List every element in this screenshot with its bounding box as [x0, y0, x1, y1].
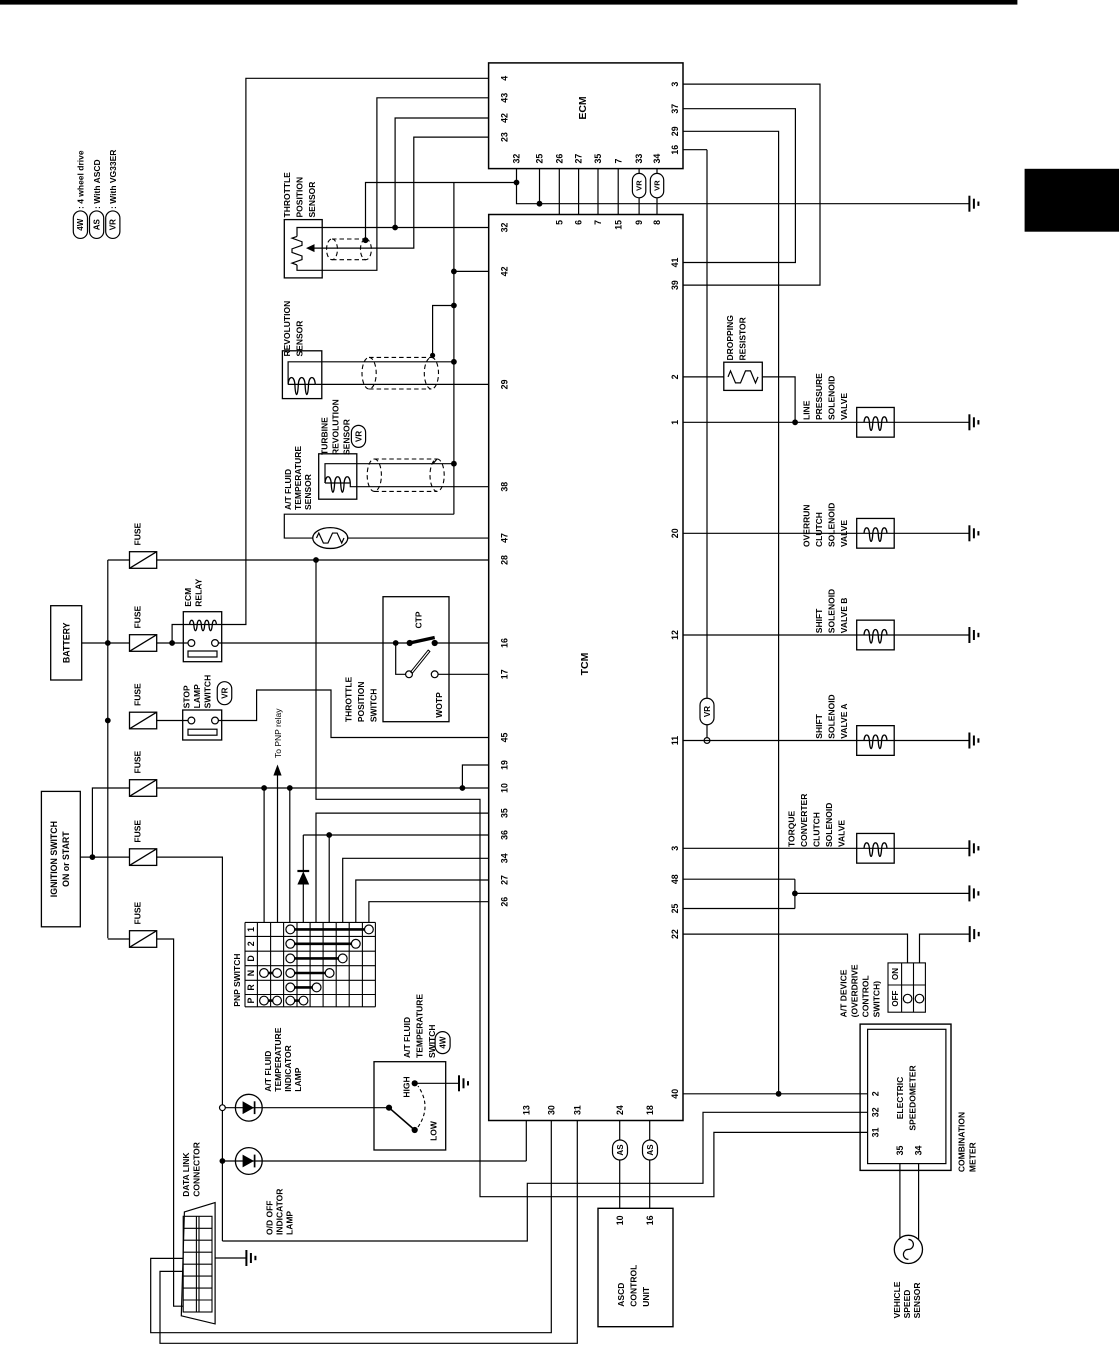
svg-text:SENSOR: SENSOR: [342, 419, 352, 455]
svg-text:CLUTCH: CLUTCH: [812, 812, 822, 847]
svg-text:32: 32: [871, 1107, 881, 1117]
svg-text:19: 19: [500, 760, 510, 770]
line pressure solenoid valve: [857, 407, 895, 437]
svg-text:VALVE A: VALVE A: [839, 703, 849, 738]
wire TCM pin 36: [329, 834, 489, 836]
svg-text:ON or START: ON or START: [61, 831, 71, 887]
svg-text:29: 29: [500, 379, 510, 389]
svg-text:43: 43: [500, 93, 510, 103]
page header bar: [0, 0, 1017, 5]
throttle position switch: [383, 597, 449, 722]
turbine revolution sensor: [319, 454, 357, 499]
svg-text:SENSOR: SENSOR: [912, 1282, 922, 1318]
svg-text:CONVERTER: CONVERTER: [799, 794, 809, 847]
revolution sensor coil: [288, 383, 315, 385]
node pin19 junction: [460, 785, 466, 791]
battery: [51, 606, 82, 680]
svg-text:37: 37: [670, 104, 680, 114]
wire PNP row4 to ignition line: [289, 788, 291, 922]
node pin28/speedometer tap: [313, 557, 319, 563]
svg-text:CONNECTOR: CONNECTOR: [192, 1142, 202, 1197]
svg-text:HIGH: HIGH: [402, 1076, 412, 1097]
ground torque converter clutch solenoid valve: [969, 840, 978, 856]
wire WOTP to TCM pin 17: [438, 673, 489, 675]
svg-text:SHIFT: SHIFT: [814, 713, 824, 738]
svg-text:29: 29: [670, 126, 680, 136]
svg-text:COMBINATION: COMBINATION: [957, 1112, 967, 1172]
wire battery bus: [107, 560, 109, 938]
svg-text:15: 15: [613, 220, 623, 230]
svg-text:SPEEDOMETER: SPEEDOMETER: [908, 1065, 918, 1130]
svg-text:SOLENOID: SOLENOID: [827, 376, 837, 420]
svg-text:RELAY: RELAY: [194, 578, 204, 606]
ground TCM: [969, 885, 978, 901]
svg-text:8: 8: [652, 220, 662, 225]
svg-text:17: 17: [500, 669, 510, 679]
node turbine bus junction: [451, 461, 457, 467]
svg-text:VR: VR: [703, 706, 712, 717]
wire TCM pin 40 to speedometer pin 2: [683, 1093, 868, 1095]
svg-text:10: 10: [500, 783, 510, 793]
wire pin28 line to speedometer pin 31: [316, 560, 868, 1197]
svg-text:47: 47: [500, 533, 510, 543]
svg-text:: With ASCD: : With ASCD: [92, 159, 102, 209]
svg-text:TURBINE: TURBINE: [320, 417, 330, 455]
wire speedometer pin 34 to speed sensor: [918, 1164, 920, 1240]
svg-text:SWITCH: SWITCH: [203, 675, 213, 709]
svg-text:FUSE: FUSE: [133, 683, 143, 706]
svg-text:REVOLUTION: REVOLUTION: [282, 301, 292, 357]
wire to A/T fluid temp indicator lamp: [225, 1107, 389, 1109]
wire DLC to TCM pin 31: [160, 1121, 577, 1344]
wire relay coil feed: [172, 625, 190, 644]
svg-text:20: 20: [670, 528, 680, 538]
svg-text:4W: 4W: [76, 218, 85, 230]
wire sensor ground bus: [453, 183, 455, 515]
wire PNP row10 to TCM pin 26: [369, 902, 489, 923]
throttle position sensor: [284, 220, 322, 278]
svg-text:AS: AS: [616, 1144, 625, 1156]
svg-text:DROPPING: DROPPING: [725, 315, 735, 361]
wire ECM35 to TCM7: [597, 169, 599, 215]
svg-text:23: 23: [500, 132, 510, 142]
svg-text:PRESSURE: PRESSURE: [814, 373, 824, 420]
svg-text:CLUTCH: CLUTCH: [814, 512, 824, 547]
wire thermistor to TCM pin 47: [348, 537, 489, 539]
svg-text:4: 4: [500, 76, 510, 81]
wire DLC to ground: [215, 1257, 246, 1259]
wire ECM34 to TCM8 with VR pill: [656, 169, 658, 174]
node WOTP branch: [393, 640, 399, 646]
wire ECM33 to TCM9 with VR pill: [638, 169, 640, 174]
svg-text:35: 35: [895, 1146, 905, 1156]
wire fuse F5 to lamps: [92, 856, 129, 858]
revolution sensor: [282, 351, 321, 399]
data link connector: [181, 1203, 215, 1324]
svg-text:30: 30: [546, 1105, 556, 1115]
wire ECM37 to TCM41: [683, 109, 795, 263]
svg-text:27: 27: [574, 154, 584, 164]
svg-text:3: 3: [670, 846, 680, 851]
dropping resistor: [724, 362, 763, 390]
svg-text:SPEED: SPEED: [902, 1290, 912, 1319]
svg-text:POSITION: POSITION: [295, 177, 305, 218]
wire ECM7 to TCM15: [617, 169, 619, 215]
wire rev sensor to TCM pin 29: [315, 383, 488, 385]
wire ECM3 to TCM39: [683, 84, 820, 285]
A/T fluid temperature switch 4W pill: [435, 1032, 450, 1054]
svg-text:35: 35: [500, 808, 510, 818]
svg-text:31: 31: [572, 1105, 582, 1115]
svg-text:26: 26: [500, 897, 510, 907]
svg-text:OFF: OFF: [891, 990, 900, 1006]
wire PNP row8 to TCM pin 34: [343, 858, 489, 922]
svg-text:2: 2: [871, 1091, 881, 1096]
wire TCM pin 24 to ASCD with AS pill: [619, 1121, 621, 1141]
wire relay contact to throttle switch: [218, 642, 409, 644]
O/D OFF indicator lamp: [235, 1148, 262, 1175]
wire bus to fuse B: [108, 642, 130, 644]
wire TPS wiper to ECM pin 23: [314, 137, 489, 248]
svg-text:24: 24: [615, 1105, 625, 1115]
svg-text:VR: VR: [635, 180, 644, 191]
svg-text:SWITCH): SWITCH): [872, 981, 882, 1018]
ASCD control unit: [598, 1208, 673, 1326]
wire DLC to fuse F6: [157, 939, 184, 1306]
TCM: [489, 215, 683, 1121]
node rev shield bus junction: [451, 303, 457, 309]
svg-text:A/T DEVICE: A/T DEVICE: [839, 969, 849, 1017]
turbine sensor cable shield: [367, 459, 444, 491]
svg-text:METER: METER: [968, 1142, 978, 1172]
svg-text:42: 42: [500, 266, 510, 276]
wire fuse F3 to stop lamp switch: [157, 720, 188, 722]
svg-text:STOP: STOP: [182, 685, 192, 708]
svg-text:VALVE: VALVE: [839, 520, 849, 547]
legend 4W pill: [73, 211, 87, 239]
svg-text:LINE: LINE: [802, 400, 812, 420]
svg-text:TORQUE: TORQUE: [787, 810, 797, 847]
svg-text:ECM: ECM: [183, 588, 193, 607]
svg-text:To PNP relay: To PNP relay: [273, 708, 283, 758]
wire bus to fuse A: [108, 559, 130, 561]
wire overdrive switch to ground: [920, 934, 970, 963]
svg-text:FUSE: FUSE: [133, 820, 143, 843]
wire stop lamp switch to TCM pin 45: [218, 690, 488, 738]
svg-text:CTP: CTP: [414, 611, 424, 628]
node speed signal junction: [776, 1091, 782, 1097]
svg-text:AS: AS: [92, 218, 101, 230]
wire thermistor to bus end: [284, 514, 454, 538]
svg-text:9: 9: [634, 220, 644, 225]
wire fuse F1 to TCM pin 28: [157, 559, 489, 561]
wire ECM29 to speed signal line: [683, 131, 779, 1094]
svg-text:31: 31: [871, 1127, 881, 1137]
node ECM32 shield tap: [514, 180, 520, 186]
svg-text:48: 48: [670, 874, 680, 884]
PNP switch grid: [245, 922, 375, 1006]
svg-text:SOLENOID: SOLENOID: [827, 589, 837, 633]
combination meter outer box: [860, 1024, 951, 1170]
wire dropping resistor to pin1 line: [762, 377, 795, 422]
node TPS shield connection: [363, 237, 369, 243]
fuse F2 (ECM relay feed): [130, 635, 157, 652]
overdrive control switch grid: [888, 963, 925, 1012]
wire TCM pin 48: [683, 878, 795, 880]
svg-text:ECM: ECM: [577, 96, 589, 120]
fuse F3 (stop lamp switch feed): [130, 712, 157, 729]
ground data link connector: [246, 1250, 255, 1266]
svg-text:2: 2: [246, 941, 256, 946]
svg-text:41: 41: [670, 258, 680, 268]
svg-text:ASCD: ASCD: [616, 1283, 626, 1307]
svg-text:INDICATOR: INDICATOR: [275, 1189, 285, 1235]
node TCM ground junction: [792, 891, 798, 897]
svg-text:2: 2: [670, 374, 680, 379]
svg-text:27: 27: [500, 875, 510, 885]
wire turbine sensor to TCM pin 38: [350, 483, 488, 487]
svg-text:BATTERY: BATTERY: [62, 622, 72, 663]
svg-text:39: 39: [670, 280, 680, 290]
svg-text:THROTTLE: THROTTLE: [344, 676, 354, 722]
A/T fluid temperature indicator lamp: [235, 1094, 262, 1121]
svg-text:16: 16: [645, 1215, 655, 1225]
wire relay coil to ECM pin 4: [216, 78, 488, 624]
wire PNP row7 to TCM pin 36: [328, 835, 330, 922]
svg-text:FUSE: FUSE: [133, 523, 143, 546]
ground A/T fluid temperature switch: [459, 1075, 468, 1091]
wire lamps line to speedometer pin 32: [222, 1112, 867, 1241]
svg-text:FUSE: FUSE: [133, 902, 143, 925]
svg-text:ON: ON: [891, 968, 900, 980]
turbine revolution sensor VR pill: [351, 425, 365, 447]
overrun clutch solenoid valve: [857, 518, 895, 548]
wire PNP row6 to TCM pin 35: [316, 813, 489, 922]
svg-text:N: N: [246, 970, 256, 976]
wire turbine shield drain: [433, 459, 437, 464]
ecm relay: [183, 612, 221, 662]
svg-text:LOW: LOW: [429, 1120, 439, 1141]
svg-text:TEMPERATURE: TEMPERATURE: [415, 994, 425, 1058]
connector split A/T lamp (4W): [220, 1105, 226, 1111]
svg-text:10: 10: [615, 1215, 625, 1225]
wire TCM pin 12 to shift solenoid valve B: [683, 634, 969, 636]
wire TCM pin 22 to overdrive switch: [683, 934, 908, 963]
fuse F5 (lamps feed): [130, 849, 157, 866]
svg-text:SENSOR: SENSOR: [303, 474, 313, 510]
svg-text:6: 6: [574, 220, 584, 225]
svg-text:3: 3: [670, 82, 680, 87]
temperature switch dashed arc: [418, 1086, 425, 1127]
wire PNP row2 to ignition line: [263, 788, 265, 922]
node O/D lamp tap: [220, 1158, 226, 1164]
wire turbine sensor to bus: [325, 464, 454, 483]
svg-text:P: P: [246, 998, 256, 1004]
wire TCM pin 20 to overrun clutch solenoid valve: [683, 532, 969, 534]
fuse F1 (pin28 feed): [130, 552, 157, 569]
ignition switch: [41, 791, 80, 926]
section tab: [1025, 169, 1119, 232]
svg-text:CONTROL: CONTROL: [629, 1265, 639, 1307]
node ECM42 junction: [392, 225, 398, 231]
node ignition junction: [90, 854, 96, 860]
svg-text:THROTTLE: THROTTLE: [282, 172, 292, 218]
ground ECM: [969, 196, 978, 212]
wire ECM pin 25 join: [539, 169, 541, 204]
TPS resistor: [292, 236, 302, 265]
node TCM42 bus junction: [451, 269, 457, 275]
svg-text:PNP SWITCH: PNP SWITCH: [232, 953, 242, 1006]
wire PNP row5 diode branch: [302, 885, 304, 923]
ground overdrive switch: [970, 926, 979, 942]
svg-text:FUSE: FUSE: [133, 606, 143, 629]
svg-text:A/T FLUID: A/T FLUID: [283, 469, 293, 510]
wire TPS to TCM pin 32: [297, 228, 489, 237]
wire pins 48-25 link: [794, 879, 796, 908]
svg-text:42: 42: [500, 113, 510, 123]
svg-text:: 4 wheel drive: : 4 wheel drive: [76, 150, 86, 209]
A/T fluid temperature sensor thermistor: [313, 528, 348, 549]
svg-text:IGNITION SWITCH: IGNITION SWITCH: [49, 821, 59, 897]
stop lamp switch VR pill: [217, 682, 232, 705]
svg-text:34: 34: [652, 154, 662, 164]
svg-text:35: 35: [593, 154, 603, 164]
electric speedometer inner box: [868, 1029, 946, 1163]
svg-text:45: 45: [500, 733, 510, 743]
torque converter clutch solenoid valve: [857, 833, 895, 863]
svg-text:VALVE: VALVE: [837, 820, 847, 847]
wire to O/D OFF indicator lamp: [222, 1160, 526, 1162]
ground shift solenoid valve B: [969, 627, 978, 643]
svg-text:AS: AS: [646, 1144, 655, 1156]
stop lamp switch: [183, 710, 222, 740]
svg-text:TEMPERATURE: TEMPERATURE: [293, 446, 303, 510]
svg-text:LAMP: LAMP: [285, 1211, 295, 1235]
wire TCM pin 25: [683, 908, 795, 910]
PNP switch contacts: [268, 929, 364, 1000]
wire ignition to fuse D: [92, 788, 129, 857]
svg-text:40: 40: [670, 1089, 680, 1099]
ECM: [489, 63, 683, 169]
wire HIGH contact to ground: [415, 1082, 459, 1084]
svg-text:LAMP: LAMP: [192, 684, 202, 708]
svg-text:POSITION: POSITION: [356, 681, 366, 722]
svg-text:FUSE: FUSE: [133, 751, 143, 774]
wire TCM pin 18 to ASCD with AS pill: [649, 1121, 651, 1141]
svg-text:38: 38: [500, 482, 510, 492]
svg-text:A/T FLUID: A/T FLUID: [402, 1017, 412, 1058]
svg-text:18: 18: [645, 1105, 655, 1115]
node bus fuse C tap: [105, 718, 111, 724]
svg-text:: With VG33ER: : With VG33ER: [108, 150, 118, 209]
ground overrun clutch solenoid valve: [969, 525, 978, 541]
svg-text:TEMPERATURE: TEMPERATURE: [273, 1027, 283, 1091]
wire O/D lamp to TCM pin 13: [525, 1121, 527, 1162]
ground line pressure solenoid valve: [969, 414, 978, 430]
svg-text:REVOLUTION: REVOLUTION: [331, 399, 341, 455]
legend VR pill: [106, 211, 120, 239]
svg-text:SENSOR: SENSOR: [307, 182, 317, 218]
svg-text:LAMP: LAMP: [293, 1067, 303, 1091]
svg-text:16: 16: [500, 638, 510, 648]
wire TCM pin 3 to torque converter clutch solenoid valve: [683, 847, 969, 849]
svg-text:RESISTOR: RESISTOR: [738, 317, 748, 360]
wire ECM pin 32: [517, 169, 970, 204]
legend AS pill: [90, 211, 104, 239]
wire TCM pin 42 to sensor bus: [454, 270, 489, 272]
node pin36 junction: [326, 832, 332, 838]
node battery bus junction: [105, 640, 111, 646]
shift solenoid valve B: [857, 620, 895, 650]
wire TCM pin 11 to shift solenoid valve A: [683, 740, 969, 742]
fuse F4 (ignition/pin10 feed): [130, 780, 157, 797]
svg-text:11: 11: [670, 736, 680, 745]
wire ECM27 to TCM6: [578, 169, 580, 215]
svg-text:13: 13: [521, 1105, 531, 1115]
svg-text:DATA LINK: DATA LINK: [181, 1152, 191, 1197]
svg-text:WOTP: WOTP: [434, 692, 444, 718]
wire WOTP branch: [396, 643, 406, 674]
wire CTP to TCM pin 16: [435, 642, 489, 644]
svg-text:INDICATOR: INDICATOR: [283, 1045, 293, 1091]
wire ECM16 to pin 11 connector: [683, 149, 707, 151]
wire TCM pin 19: [462, 765, 488, 788]
svg-text:ELECTRIC: ELECTRIC: [895, 1077, 905, 1120]
wire PNP row9 to TCM pin 27: [356, 880, 489, 922]
svg-text:VR: VR: [354, 431, 363, 442]
wire fuse F4 to TCM pin 10: [157, 787, 489, 789]
svg-text:36: 36: [500, 830, 510, 840]
wire ECM pin 43 to TPS: [297, 98, 489, 271]
svg-text:7: 7: [613, 159, 623, 164]
temperature switch lever: [389, 1108, 415, 1130]
svg-text:32: 32: [500, 223, 510, 233]
svg-text:R: R: [246, 984, 256, 991]
wire TCM ground: [795, 892, 970, 894]
wire bus to fuse F: [108, 938, 130, 940]
svg-text:SOLENOID: SOLENOID: [827, 503, 837, 547]
wire DLC to TCM pin 30: [151, 1121, 552, 1333]
revolution sensor cable shield: [362, 357, 439, 389]
wire ECM26 to TCM5: [558, 169, 560, 215]
node row4 tap: [287, 785, 293, 791]
svg-text:7: 7: [593, 220, 603, 225]
svg-text:OVERRUN: OVERRUN: [802, 504, 812, 547]
turbine sensor coil: [325, 482, 350, 484]
node relay coil tap: [169, 640, 175, 646]
node ECM25 junction: [537, 201, 543, 207]
A/T fluid temperature switch: [374, 1062, 446, 1150]
svg-text:5: 5: [554, 220, 564, 225]
wire speedometer pin 35 to speed sensor: [899, 1164, 901, 1239]
wire ignition switch feed: [80, 856, 92, 858]
svg-text:VALVE: VALVE: [839, 393, 849, 420]
svg-text:SOLENOID: SOLENOID: [827, 694, 837, 738]
svg-text:16: 16: [670, 145, 680, 155]
svg-text:VR: VR: [653, 180, 662, 191]
svg-text:26: 26: [554, 154, 564, 164]
svg-text:1: 1: [670, 420, 680, 425]
svg-text:SWITCH: SWITCH: [369, 689, 379, 723]
ground shift solenoid valve A: [969, 733, 978, 749]
svg-text:32: 32: [512, 154, 522, 164]
wire TCM pin 2 to dropping resistor: [683, 376, 724, 378]
svg-text:VR: VR: [220, 687, 229, 698]
wire ECM pin 42: [395, 118, 489, 228]
svg-text:33: 33: [634, 154, 644, 164]
svg-text:D: D: [246, 955, 256, 961]
svg-text:SOLENOID: SOLENOID: [824, 803, 834, 847]
